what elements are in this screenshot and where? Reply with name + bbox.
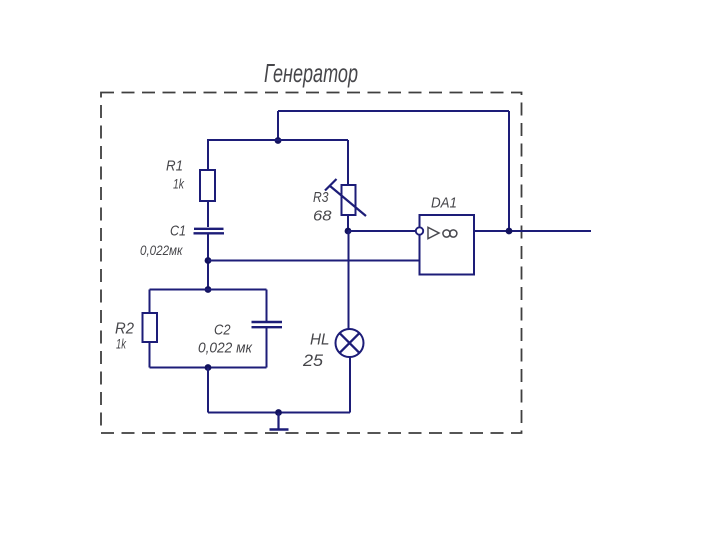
svg-text:68: 68 <box>313 208 332 225</box>
wire R1 top lead <box>207 140 209 170</box>
wire C1 to tank top <box>207 235 209 290</box>
svg-text:R1: R1 <box>166 159 183 175</box>
resistor R1 <box>200 170 215 201</box>
lamp HL <box>336 329 364 357</box>
node junction C1 output (208,260.5) <box>205 257 212 264</box>
wire top feedback horizontal <box>278 110 509 112</box>
wire ground rail <box>208 412 350 414</box>
ground <box>270 413 289 430</box>
node junction tank bottom (208,367.5) <box>205 364 212 371</box>
svg-text:Генератор: Генератор <box>264 58 358 88</box>
svg-text:R2: R2 <box>115 321 134 338</box>
wire output <box>474 230 591 232</box>
svg-text:1k: 1k <box>173 177 185 192</box>
svg-text:0,022мк: 0,022мк <box>140 242 184 258</box>
wire tank bottom edge <box>150 367 267 369</box>
wire lamp top lead <box>348 231 350 329</box>
svg-text:C2: C2 <box>214 323 231 339</box>
svg-text:R3: R3 <box>313 189 329 206</box>
wire R2 leads (tank left edge) <box>149 290 151 314</box>
svg-text:0,022 мк: 0,022 мк <box>198 340 253 357</box>
wire tank top edge <box>150 289 267 291</box>
node ground junction (278.5,412.5) <box>275 409 282 416</box>
op-amp DA1 <box>416 215 474 275</box>
svg-text:HL: HL <box>310 332 330 349</box>
wire lamp bottom lead <box>349 357 351 413</box>
capacitor C2 <box>252 322 283 327</box>
wire R3 top lead <box>347 140 349 185</box>
svg-text:C1: C1 <box>170 224 186 240</box>
node junction output / feedback (509,231) <box>506 228 513 235</box>
resistor R3 (adjustable) <box>325 179 366 216</box>
svg-text:1k: 1k <box>116 337 127 352</box>
wire tank bottom to ground rail <box>207 368 209 413</box>
node junction top rail (278,140) <box>275 137 282 144</box>
wire noninverting input (to DA1 lower input) <box>208 260 420 262</box>
node junction R3 / lamp / inverting input (348,231) <box>345 228 352 235</box>
capacitor C1 <box>194 229 225 234</box>
wire feedback vertical <box>508 111 510 231</box>
wire stub from top rail down to node <box>277 111 279 140</box>
wire R3 bottom lead <box>347 215 349 231</box>
generator block boundary (dashed frame) <box>101 93 522 434</box>
svg-text:25: 25 <box>302 352 324 370</box>
wire horizontal rail y=140 <box>207 139 348 141</box>
wire C2 leads (tank right edge) <box>266 290 268 322</box>
svg-text:DA1: DA1 <box>431 195 457 212</box>
node junction tank top (208,289) <box>205 286 212 293</box>
resistor R2 <box>143 313 158 342</box>
wire R1 to C1 <box>207 201 209 227</box>
wire inverting input (to DA1 bubble) <box>348 230 416 232</box>
